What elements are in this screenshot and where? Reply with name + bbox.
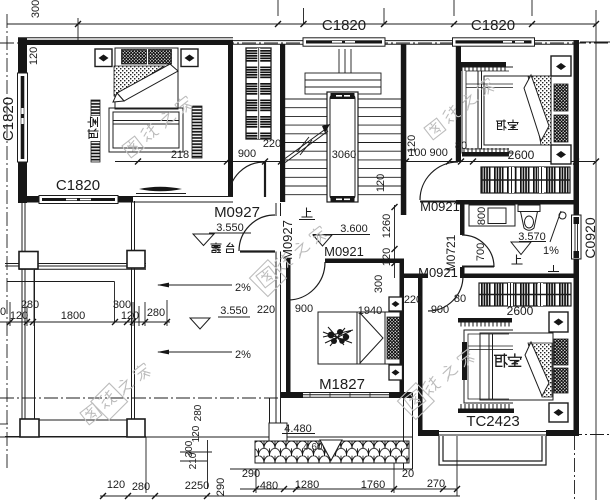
svg-text:20: 20 bbox=[402, 468, 414, 480]
svg-text:220: 220 bbox=[263, 138, 281, 150]
svg-text:C1820: C1820 bbox=[0, 97, 17, 141]
svg-text:480: 480 bbox=[260, 480, 278, 492]
svg-text:M0721: M0721 bbox=[444, 234, 458, 271]
svg-text:2600: 2600 bbox=[507, 304, 534, 318]
svg-text:80: 80 bbox=[455, 140, 467, 152]
svg-text:3.570: 3.570 bbox=[518, 231, 546, 243]
svg-text:2600: 2600 bbox=[508, 148, 535, 162]
svg-text:TC2423: TC2423 bbox=[466, 413, 519, 430]
svg-text:1280: 1280 bbox=[295, 479, 319, 491]
svg-text:M0921: M0921 bbox=[420, 199, 460, 214]
svg-text:1760: 1760 bbox=[361, 479, 385, 491]
svg-text:280: 280 bbox=[132, 481, 150, 493]
svg-text:120: 120 bbox=[381, 248, 393, 266]
svg-text:4.480: 4.480 bbox=[284, 423, 312, 435]
svg-text:3.550: 3.550 bbox=[220, 305, 248, 317]
svg-text:C0920: C0920 bbox=[582, 217, 598, 258]
svg-text:1260: 1260 bbox=[381, 214, 393, 238]
svg-text:290: 290 bbox=[215, 478, 227, 496]
svg-text:900: 900 bbox=[295, 303, 313, 315]
svg-text:1%: 1% bbox=[543, 245, 559, 257]
svg-text:220: 220 bbox=[404, 294, 422, 306]
svg-text:0: 0 bbox=[0, 306, 6, 318]
svg-text:300: 300 bbox=[373, 275, 385, 293]
svg-text:120: 120 bbox=[375, 174, 387, 192]
svg-text:800: 800 bbox=[476, 207, 488, 225]
svg-text:2%: 2% bbox=[235, 282, 251, 294]
svg-text:120: 120 bbox=[28, 47, 40, 65]
svg-text:C1820: C1820 bbox=[56, 177, 100, 194]
svg-text:900: 900 bbox=[238, 148, 256, 160]
svg-text:C1820: C1820 bbox=[471, 17, 515, 34]
svg-text:3.550: 3.550 bbox=[216, 222, 244, 234]
svg-text:2250: 2250 bbox=[185, 480, 209, 492]
svg-text:1940: 1940 bbox=[358, 305, 382, 317]
svg-text:700: 700 bbox=[475, 243, 487, 261]
svg-text:270: 270 bbox=[427, 478, 445, 490]
svg-text:120: 120 bbox=[121, 310, 139, 322]
svg-text:120: 120 bbox=[107, 479, 125, 491]
svg-text:290: 290 bbox=[242, 468, 260, 480]
svg-text:M1827: M1827 bbox=[319, 376, 365, 393]
svg-text:1800: 1800 bbox=[61, 310, 85, 322]
svg-text:220: 220 bbox=[257, 304, 275, 316]
svg-text:210: 210 bbox=[188, 452, 199, 469]
svg-text:80: 80 bbox=[454, 293, 466, 305]
svg-text:120: 120 bbox=[191, 425, 202, 442]
svg-text:280: 280 bbox=[147, 307, 165, 319]
svg-text:120: 120 bbox=[406, 135, 418, 153]
svg-text:280: 280 bbox=[193, 404, 204, 421]
svg-text:M0927: M0927 bbox=[214, 204, 260, 221]
svg-text:900: 900 bbox=[431, 304, 449, 316]
svg-text:M0927: M0927 bbox=[280, 220, 295, 260]
svg-text:3060: 3060 bbox=[332, 149, 356, 161]
svg-text:3.600: 3.600 bbox=[340, 223, 368, 235]
svg-text:300: 300 bbox=[30, 0, 42, 18]
svg-text:218: 218 bbox=[171, 149, 189, 161]
svg-text:C1820: C1820 bbox=[322, 17, 366, 34]
svg-text:M0921: M0921 bbox=[324, 244, 364, 259]
svg-text:2%: 2% bbox=[235, 349, 251, 361]
